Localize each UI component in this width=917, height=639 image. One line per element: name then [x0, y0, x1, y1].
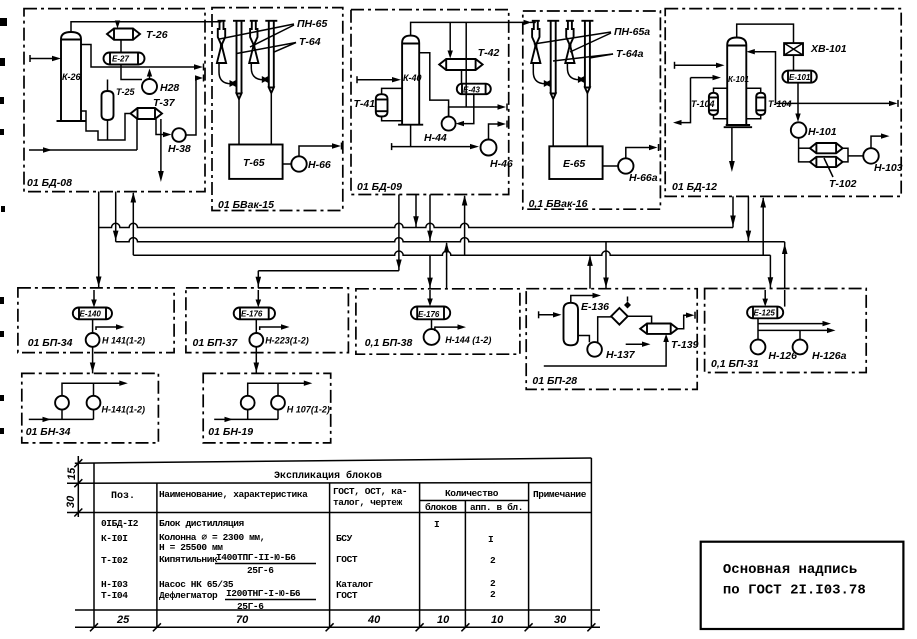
svg-text:0,1 БП-38: 0,1 БП-38 [365, 337, 413, 349]
wire feed into Е-176 [427, 290, 433, 307]
svg-text:01 БД-09: 01 БД-09 [357, 181, 402, 193]
svg-text:15: 15 [66, 467, 78, 480]
wire v8: БП-38 up to bus2 [444, 242, 450, 289]
svg-text:30: 30 [554, 614, 567, 626]
svg-text:2: 2 [490, 589, 496, 600]
block border 01 БП-28 [526, 289, 697, 390]
svg-text:Поз.: Поз. [111, 491, 135, 502]
table outer top line (slightly tilted as in scan) [75, 458, 592, 463]
wire v9: bus3 up into block3 [462, 195, 468, 255]
svg-text:01 БП-28: 01 БП-28 [532, 375, 577, 387]
wire v1: block1 bottoms to bus1 and БП-34 [96, 192, 102, 288]
pump H-44 [442, 117, 456, 131]
wire K-101 overhead to XB-101 [737, 24, 794, 43]
heat exchanger T-42 [439, 59, 482, 70]
svg-text:Е-125: Е-125 [754, 309, 776, 318]
wire feed into K-40 [357, 76, 401, 83]
wire v17: БП-31 up to bus2 end [782, 242, 788, 289]
wire E-136 to pump H-137 [578, 336, 589, 343]
svg-text:Т-102: Т-102 [829, 178, 857, 190]
pump Н-144 [424, 329, 440, 345]
label ПН-65 with leader lines [220, 18, 328, 47]
wire E-125 to pump H-126 [757, 318, 759, 339]
ejector ПН-65а no.1 [531, 21, 550, 87]
svg-text:01 БН-34: 01 БН-34 [26, 426, 71, 438]
svg-text:Н 141(1-2): Н 141(1-2) [102, 336, 145, 346]
wire v6: block3 to bus2 [427, 195, 433, 242]
ejector ПН-65 no.2 [249, 21, 268, 83]
svg-text:Н-38: Н-38 [168, 143, 191, 155]
wire feed into Е-140 [91, 290, 97, 308]
block border 0,1 БП-38 [356, 289, 520, 354]
svg-text:30: 30 [65, 495, 77, 508]
wire K-101 bottoms down arrow [729, 127, 735, 172]
wire T-41 bottom to column [382, 117, 403, 121]
wire БП-34 down to БН-34 [90, 347, 96, 374]
pump Н-126а [793, 340, 808, 355]
block border 01 БН-34 [22, 373, 159, 443]
table quantity subheader line [420, 500, 529, 502]
svg-text:10: 10 [491, 614, 504, 626]
wire v15: bus3 up into block5 [760, 197, 766, 255]
wire filter to Т-139 [628, 316, 652, 323]
svg-text:ГОСТ, ОСТ, ка-: ГОСТ, ОСТ, ка- [333, 486, 407, 497]
wire bottom recycle to T-139 [544, 334, 669, 366]
wire feed from block 1 into ejector PN-65 no.1 [220, 21, 222, 23]
svg-text:по ГОСТ 2I.I03.78: по ГОСТ 2I.I03.78 [723, 583, 866, 599]
block border 01 БВак-15 [212, 8, 343, 211]
table vertical: right edge [590, 458, 592, 627]
svg-text:К-40: К-40 [403, 73, 422, 83]
wire feed from block 3 into ejector PN-65a no.1 [524, 20, 536, 25]
air cooler ХВ-101 [784, 43, 803, 55]
wire T-26 to E-27 [120, 40, 122, 53]
column K-40 [398, 36, 423, 125]
block border 01 БП-37 [186, 288, 349, 353]
svg-text:0IБД-I2: 0IБД-I2 [101, 518, 139, 529]
bus line 1 [99, 223, 733, 227]
wire v7: bus3 down to БП-38 [427, 255, 433, 289]
table title bottom line [67, 482, 591, 485]
left dimension line with ticks 15 / 30 [65, 456, 82, 517]
svg-text:Н-103: Н-103 [874, 162, 903, 174]
wire side inlet arrow to T-139 [626, 342, 651, 347]
svg-text:0,1 БВак-16: 0,1 БВак-16 [529, 198, 588, 210]
wire H-66 discharge to block edge arrow [299, 143, 342, 157]
svg-text:ГОСТ: ГОСТ [336, 554, 358, 565]
svg-text:0,1 БП-31: 0,1 БП-31 [711, 358, 759, 370]
tank T-65 [229, 145, 282, 179]
vessel Е-176 (БП-37) [234, 308, 275, 320]
block border 01 БД-08 [24, 9, 205, 192]
svg-text:Н-66: Н-66 [308, 159, 331, 171]
wire pumps discharge header [248, 381, 313, 396]
wire T-139 outlet to block edge arrow [678, 312, 696, 329]
svg-text:01 БД-12: 01 БД-12 [672, 181, 717, 193]
wire T-25 top stub [107, 80, 109, 92]
pump H-38 [172, 128, 186, 142]
wire v12: bus2 down into БП-28 [603, 242, 609, 289]
svg-text:Н-44: Н-44 [424, 132, 447, 144]
filter (diamond) [611, 297, 631, 325]
wire v11: БП-28 up to bus3 [587, 255, 593, 288]
wire feed into K-26 [30, 55, 61, 62]
svg-text:Н-66а: Н-66а [629, 172, 658, 184]
pump Н-141 [86, 333, 100, 347]
wire T-41 top to column [382, 88, 403, 94]
bus line 4 (to БП-37) [258, 270, 399, 272]
wire feed 1 into K-101 [675, 62, 725, 69]
barometric tube Т-64а no.1 [547, 21, 559, 147]
svg-text:70: 70 [236, 614, 249, 626]
svg-text:Т-65: Т-65 [243, 157, 265, 169]
bottom dimension ticks [90, 623, 595, 631]
wire v10: line4 down into БП-37 [256, 271, 262, 288]
block border 01 БД-09 [351, 10, 509, 195]
svg-text:25Г-6: 25Г-6 [237, 601, 264, 612]
svg-text:К-I0I: К-I0I [101, 533, 128, 544]
svg-text:I: I [434, 519, 439, 530]
svg-text:Н-141(1-2): Н-141(1-2) [102, 405, 146, 415]
svg-text:10: 10 [437, 614, 450, 626]
wire product line 2 arrow with branch to H-126a [758, 328, 836, 340]
wire E-140 to pump H-141 [92, 319, 94, 333]
wire E-101 to pump H-101 [795, 83, 800, 122]
svg-text:Н-101: Н-101 [808, 126, 837, 138]
svg-text:Н = 25500 мм: Н = 25500 мм [159, 542, 223, 553]
svg-text:Наименование, характеристика: Наименование, характеристика [159, 489, 308, 500]
svg-text:Т-I02: Т-I02 [101, 555, 128, 566]
pump Н-107/2 [271, 396, 285, 410]
ejector ПН-65а no.2 [565, 21, 584, 83]
bus line 2 [116, 238, 785, 242]
wire T-65 to pump H-66 [283, 163, 292, 165]
wire H-46 discharge to block edge arrow [489, 121, 508, 140]
table dimension bottom line [75, 626, 600, 628]
pump Н-126 [751, 340, 766, 355]
wire pumps suction header [29, 410, 94, 423]
svg-text:01 БН-19: 01 БН-19 [208, 426, 253, 438]
vessel Е-176 (БП-38) [411, 307, 450, 320]
wire bottom feed into T-37 [29, 119, 137, 153]
svg-text:25: 25 [116, 614, 130, 626]
svg-text:ПН-65: ПН-65 [297, 18, 327, 30]
svg-text:Т-139: Т-139 [671, 339, 699, 351]
svg-text:Е-176: Е-176 [418, 310, 440, 319]
wire E-176 to pump H-144 [431, 319, 433, 329]
vessel Е-136 [564, 303, 579, 346]
pump H-28 [142, 79, 157, 94]
svg-text:Каталог: Каталог [336, 579, 373, 590]
svg-text:01 БП-34: 01 БП-34 [28, 337, 73, 349]
wire product line 1 arrow [758, 321, 831, 326]
note box frame [701, 542, 904, 629]
svg-text:40: 40 [367, 614, 381, 626]
wire T-37 to pump H-38 [156, 119, 172, 137]
wire output riser (to bus2) inside block [784, 290, 786, 307]
wire K-26 side draw to block edge arrow [81, 45, 204, 71]
svg-text:ПН-65а: ПН-65а [614, 26, 650, 38]
svg-text:Т-37: Т-37 [153, 97, 176, 109]
svg-text:Н-46: Н-46 [490, 158, 513, 170]
table header texts [111, 486, 587, 513]
column K-101 [724, 38, 752, 128]
svg-text:Н-126а: Н-126а [812, 350, 847, 362]
table vertical: col Наименование/ГОСТ [329, 483, 331, 627]
barometric tube Т-64 no.1 [233, 21, 245, 145]
svg-text:Количество: Количество [445, 488, 499, 499]
wire T-104 left stubs to column [714, 88, 728, 119]
wire product drain down arrow [158, 119, 164, 182]
wire H-103 discharge to block edge arrow [871, 133, 890, 148]
wire v5: block3 to bus1 [413, 195, 419, 228]
wire T-104 right stubs to column [746, 88, 760, 119]
label Т-64а with leader lines [553, 48, 644, 61]
vessel E-27 [104, 53, 145, 65]
svg-text:Насос НК 65/35: Насос НК 65/35 [159, 579, 234, 590]
vessel Е-101 [782, 71, 816, 83]
svg-text:Е-65: Е-65 [563, 158, 585, 170]
pump Н-137 [587, 342, 602, 357]
table data bottom line [75, 609, 600, 611]
column K-26 [57, 32, 86, 121]
wire H-38 discharge to block edge arrow [186, 75, 204, 136]
block border 0,1 БП-31 [705, 289, 867, 373]
tank Е-65 [549, 146, 602, 179]
svg-text:Н28: Н28 [160, 82, 179, 94]
table data rows [101, 518, 496, 612]
wire K-26 bottoms cascade to T-25 and T-37 [81, 111, 131, 140]
svg-text:Т-41: Т-41 [354, 98, 376, 110]
pump Н-101 [791, 122, 807, 138]
table vertical: блоков/апп [464, 501, 466, 628]
svg-text:К-26: К-26 [62, 72, 82, 82]
wire E-136 top vent arrow [571, 293, 601, 303]
pump H-66 [291, 156, 306, 171]
pump Н-141/1 [55, 396, 69, 410]
wire H-101 to reboilers T-102 [799, 138, 810, 162]
pump Н-103 [863, 148, 879, 164]
wire pump discharge arrow [260, 324, 290, 330]
svg-text:Н-223(1-2): Н-223(1-2) [265, 336, 309, 346]
wire feed into Е-125 [762, 290, 768, 307]
vessel Е-140 [73, 308, 112, 320]
svg-text:I: I [488, 534, 493, 545]
svg-text:Е-27: Е-27 [112, 55, 129, 64]
vessel T-41 [376, 94, 388, 116]
wire pump discharge arrow [435, 324, 466, 331]
svg-text:Т-104: Т-104 [691, 99, 715, 109]
svg-text:01 БД-08: 01 БД-08 [27, 177, 72, 189]
svg-text:БСУ: БСУ [336, 533, 353, 544]
svg-text:Кипятильник: Кипятильник [159, 554, 218, 565]
wire БП-37 down to БН-19 [254, 347, 260, 374]
svg-text:талог, чертеж: талог, чертеж [333, 497, 403, 508]
wire feed arrow into Е-136 [539, 311, 562, 318]
svg-text:блоков: блоков [425, 502, 458, 513]
ejector ПН-65 no.1 [217, 21, 236, 87]
svg-text:Е-43: Е-43 [463, 86, 480, 95]
wire K-26 overhead to T-26 and to block 2 [71, 21, 220, 33]
svg-text:ГОСТ: ГОСТ [336, 590, 358, 601]
table vertical: Количество/Примечание [528, 483, 530, 627]
svg-text:ХВ-101: ХВ-101 [810, 43, 847, 55]
wire feed into Е-176 [256, 290, 262, 308]
svg-text:Н-I03: Н-I03 [101, 579, 128, 590]
pump Н-66а [618, 158, 633, 173]
wire v2: block1 to bus2 [113, 192, 119, 242]
wire H-137 to filter [598, 317, 612, 343]
wire E-176 to pump H-223 [255, 319, 257, 333]
svg-text:Т-I04: Т-I04 [101, 590, 128, 601]
wire feed 2 L-line with exit arrow [673, 75, 721, 125]
svg-text:Т-64а: Т-64а [616, 48, 644, 60]
wire T-42 to E-43 [461, 70, 463, 84]
wire H-66a discharge to block edge arrow [626, 144, 659, 158]
svg-text:Н-137: Н-137 [606, 349, 636, 361]
table vertical: col ГОСТ/Количество [419, 483, 421, 627]
heat exchanger Т-139 [640, 324, 677, 334]
reboiler Т-102 upper [810, 143, 843, 153]
wire E-43 to pump H-44 [456, 94, 474, 126]
svg-text:Н-144 (1-2): Н-144 (1-2) [445, 335, 491, 345]
svg-text:I200ТНГ-I-Ю-Б6: I200ТНГ-I-Ю-Б6 [226, 588, 301, 599]
pump Н-141/2 [87, 396, 101, 410]
svg-text:I400ТПГ-II-Ю-Б6: I400ТПГ-II-Ю-Б6 [216, 552, 296, 563]
table vertical: left edge [93, 463, 95, 627]
table header bottom line [67, 512, 591, 514]
svg-text:апп. в бл.: апп. в бл. [470, 502, 523, 513]
svg-text:2: 2 [490, 555, 496, 566]
label Т-64 with leader lines [237, 36, 321, 54]
label ПН-65а with leader lines [534, 26, 651, 52]
svg-text:25Г-6: 25Г-6 [247, 565, 274, 576]
wire v13: block5 to bus1 end [730, 196, 736, 227]
wire E-65 to pump H-66a [603, 165, 619, 167]
svg-text:Н-126: Н-126 [768, 350, 797, 362]
svg-text:01 БВак-15: 01 БВак-15 [218, 199, 274, 211]
wire T-102 outlets to pump H-103 [843, 148, 848, 162]
barometric tube Т-64 no.2 [265, 21, 277, 145]
wire overhead vapor drop line [465, 22, 467, 107]
svg-text:Т-26: Т-26 [146, 29, 168, 41]
svg-text:Основная надпись: Основная надпись [723, 562, 857, 578]
pump H-46 [481, 140, 497, 156]
wire H-44 discharge to block edge arrow [449, 104, 507, 117]
heat exchanger T-37 [131, 108, 163, 119]
scan edge artifacts left margin [0, 18, 7, 434]
wire v4: block3 down to line4 [396, 195, 402, 271]
table vertical: col Поз/Наименование [156, 483, 158, 627]
svg-text:Дефлегматор: Дефлегматор [159, 590, 218, 601]
svg-text:Т-25: Т-25 [116, 87, 136, 97]
svg-text:Е-140: Е-140 [80, 310, 102, 319]
svg-text:01 БП-37: 01 БП-37 [193, 337, 239, 349]
label Т-102 with leader [824, 158, 857, 190]
wire pump H-28 discharge up arrow [147, 69, 152, 80]
reboiler Т-102 lower [810, 157, 843, 167]
wire K-40 overhead to T-42 and block 4 [411, 22, 523, 58]
wire column side draw to H-44 [419, 53, 448, 117]
pump Н-107/1 [241, 396, 255, 410]
svg-text:Е-136: Е-136 [581, 301, 609, 313]
block border 0,1 БВак-16 [523, 11, 661, 209]
wire XB-101 to E-101 [793, 55, 795, 71]
wire v3: bus3 up into block1 [131, 192, 137, 255]
svg-text:Е-176: Е-176 [241, 310, 263, 319]
deflegmator T-104 right [756, 93, 765, 115]
wire pumps suction header [214, 410, 278, 423]
wire pumps discharge header [62, 381, 128, 396]
deflegmator T-104 left [709, 93, 718, 115]
svg-text:Т-42: Т-42 [478, 47, 500, 59]
wire E-27 to pump H-28 [121, 65, 142, 80]
bus line 3 [133, 251, 770, 255]
block border 01 БП-34 [18, 288, 174, 353]
vessel Е-43 [457, 84, 491, 95]
wire v14: block5 to bus2 [746, 196, 752, 241]
block border 01 БН-19 [203, 373, 331, 443]
svg-text:Е-101: Е-101 [789, 73, 811, 82]
svg-text:Н 107(1-2): Н 107(1-2) [287, 405, 330, 415]
svg-text:К-101: К-101 [728, 75, 749, 84]
svg-text:Т-64: Т-64 [299, 36, 321, 48]
pump Н-223 [249, 333, 263, 347]
svg-text:Блок дистилляция: Блок дистилляция [159, 518, 245, 529]
wire v16: bus3 end down into БП-31 [768, 255, 774, 288]
wire column bottoms to H-46 feed line [392, 125, 479, 150]
heat exchanger T-26 [107, 29, 140, 40]
svg-text:2: 2 [490, 578, 496, 589]
dimension numbers [116, 614, 567, 626]
svg-text:Экспликация блоков: Экспликация блоков [274, 469, 382, 482]
wire reflux line to column and product line to block edge [746, 49, 898, 107]
block border 01 БД-12 [665, 9, 901, 197]
wire pump discharge arrow [96, 324, 125, 330]
barometric tube Т-64а no.2 [581, 21, 593, 147]
vessel Е-125 [747, 307, 783, 319]
svg-text:Примечание: Примечание [533, 489, 587, 500]
vessel T-25 [102, 91, 114, 120]
